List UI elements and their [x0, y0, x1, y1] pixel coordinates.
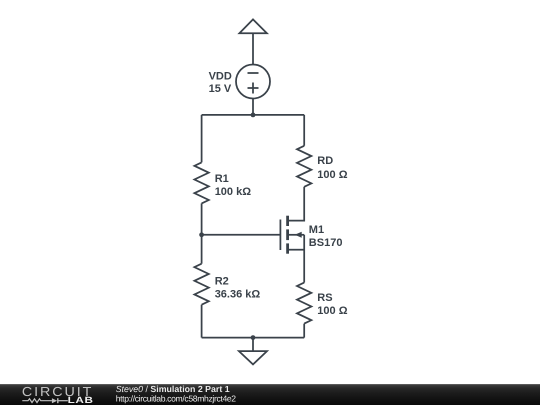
svg-text:BS170: BS170: [309, 237, 343, 249]
wire top bus to R1: [201, 115, 203, 162]
label RS 100 Ohm: [317, 292, 347, 317]
transistor M1 source line: [289, 249, 304, 251]
junction bottom node: [251, 335, 256, 340]
svg-text:100 kΩ: 100 kΩ: [215, 186, 252, 198]
svg-text:http://circuitlab.com/c58mhzjr: http://circuitlab.com/c58mhzjrct4e2: [116, 393, 237, 403]
svg-text:R1: R1: [215, 173, 229, 185]
wire R2 to bottom bus: [201, 305, 203, 338]
junction gate node: [199, 232, 204, 237]
transistor M1 channel bars: [286, 216, 289, 254]
logo resistor squiggle: [22, 399, 52, 403]
resistor RD: [297, 146, 311, 187]
label M1 BS170: [309, 224, 343, 249]
svg-text:100 Ω: 100 Ω: [317, 305, 347, 317]
power flag arrow VDD: [239, 19, 267, 33]
svg-text:36.36 kΩ: 36.36 kΩ: [215, 289, 261, 301]
resistor R1: [194, 162, 208, 203]
svg-text:VDD: VDD: [209, 70, 232, 82]
svg-text:LAB: LAB: [68, 395, 94, 405]
wire RD to drain: [289, 187, 304, 221]
wire R1 to R2: [201, 203, 203, 263]
wire gate: [202, 234, 281, 236]
svg-text:RS: RS: [317, 292, 332, 304]
resistor RS: [297, 283, 311, 324]
wire source to top bus: [252, 98, 254, 115]
svg-text:15 V: 15 V: [209, 83, 232, 95]
logo CIRCUIT text: [22, 384, 93, 399]
wire RS to bottom bus: [303, 324, 305, 338]
wire source to RS: [303, 235, 305, 283]
resistor R2: [194, 264, 208, 305]
label R1 100 kOhm: [215, 173, 252, 198]
wire top bus to RD: [303, 115, 305, 146]
wire top bus: [202, 114, 305, 116]
label RD 100 Ohm: [317, 155, 347, 181]
svg-text:100 Ω: 100 Ω: [317, 169, 347, 181]
svg-text:R2: R2: [215, 276, 229, 288]
transistor M1 gate line: [279, 220, 281, 251]
voltage source V1 VDD 15V: [236, 65, 270, 99]
label R2 36.36 kOhm: [215, 276, 261, 301]
wire to ground: [252, 338, 254, 352]
logo LAB text: [68, 395, 94, 405]
svg-text:RD: RD: [317, 155, 333, 167]
junction top node: [251, 113, 256, 118]
footer bar: [0, 384, 540, 405]
transistor M1 body line with arrow: [289, 232, 304, 238]
svg-text:M1: M1: [309, 224, 324, 236]
footer title text: [116, 384, 237, 403]
wire bottom bus: [202, 337, 305, 339]
wire arrow to source: [252, 33, 254, 64]
label VDD 15 V: [209, 70, 232, 95]
ground: [239, 351, 267, 364]
logo diode: [52, 398, 68, 403]
